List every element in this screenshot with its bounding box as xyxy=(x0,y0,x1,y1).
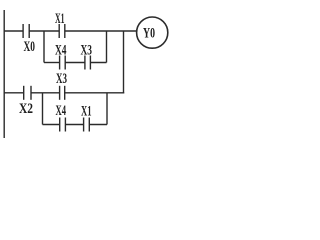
left power rail xyxy=(3,10,5,138)
svg-text:X1: X1 xyxy=(55,11,65,27)
svg-text:X4: X4 xyxy=(55,43,67,59)
svg-text:X3: X3 xyxy=(81,43,93,59)
label X2 xyxy=(19,101,33,117)
wire branch 1 right segment xyxy=(90,62,106,64)
label X1 xyxy=(55,11,65,27)
wire rung 2 middle segment xyxy=(31,92,60,94)
wire rung 2 right segment xyxy=(65,92,125,94)
contact X2 xyxy=(24,86,31,100)
wire riser joining rung 2 to rung 1 xyxy=(123,31,125,94)
contact X4 xyxy=(60,56,66,70)
contact X3 second rung xyxy=(60,86,65,100)
wire branch 1 middle segment xyxy=(65,62,85,64)
label X4 xyxy=(55,43,67,59)
label X1 second rung xyxy=(81,104,92,120)
node parallel block 2 left junction xyxy=(42,93,44,125)
wire branch 2 left segment xyxy=(43,124,60,126)
svg-text:X2: X2 xyxy=(19,101,33,117)
node parallel block 1 right junction xyxy=(106,31,108,63)
node parallel block 1 left junction xyxy=(43,31,45,63)
contact X1 xyxy=(59,24,65,38)
wire rung 1 right segment xyxy=(65,30,137,32)
contact X1 second rung xyxy=(84,118,90,132)
svg-text:X4: X4 xyxy=(56,103,67,119)
wire rung 2 left segment xyxy=(4,92,24,94)
svg-text:X3: X3 xyxy=(56,71,67,87)
contact X4 second rung xyxy=(60,118,66,132)
coil Y0 xyxy=(137,17,168,48)
wire branch 1 left segment xyxy=(44,62,60,64)
label X3 xyxy=(81,43,93,59)
label X4 second rung xyxy=(56,103,67,119)
svg-text:X1: X1 xyxy=(81,104,92,120)
wire rung 1 middle segment xyxy=(29,30,59,32)
label X0 xyxy=(24,39,36,55)
svg-text:X0: X0 xyxy=(24,39,36,55)
wire branch 2 right segment xyxy=(89,124,107,126)
contact X0 xyxy=(23,24,29,38)
label Y0 xyxy=(143,26,155,42)
svg-text:Y0: Y0 xyxy=(143,26,155,42)
label X3 second rung xyxy=(56,71,67,87)
node parallel block 2 right junction xyxy=(106,93,108,125)
contact X3 xyxy=(85,56,91,70)
wire rung 1 left segment xyxy=(4,30,24,32)
wire branch 2 middle segment xyxy=(65,124,83,126)
